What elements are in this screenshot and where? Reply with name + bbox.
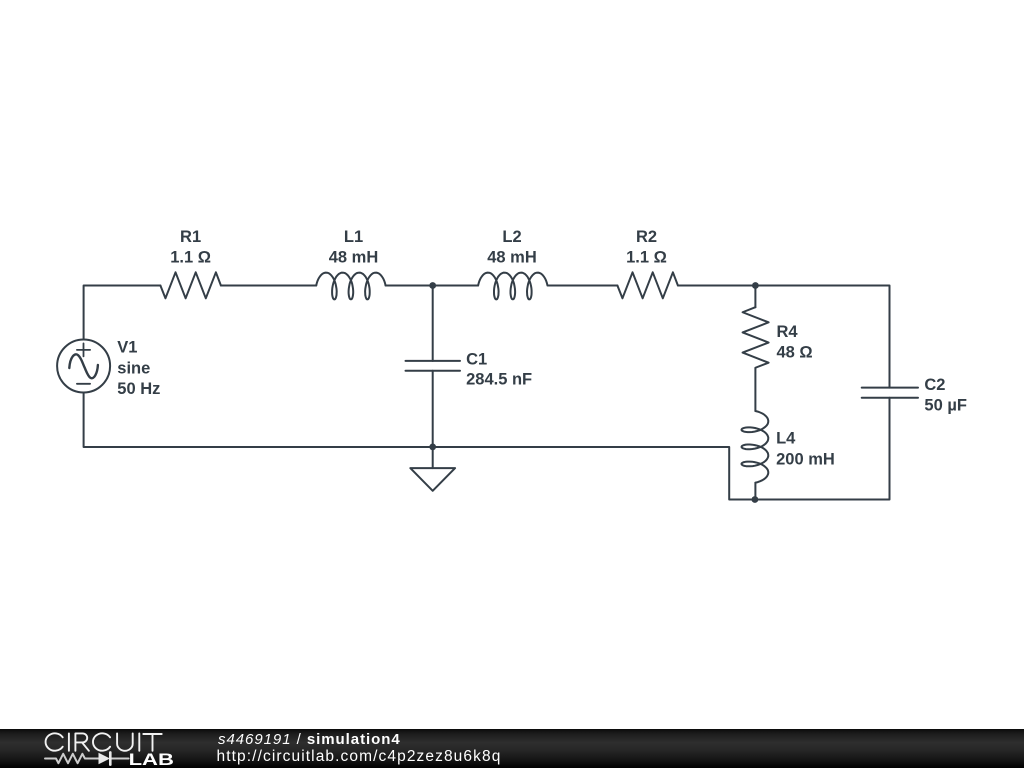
logo resistor symbol [45,754,99,763]
logo letter R [75,733,89,750]
wire C1 top lead [432,286,434,361]
svg-text:R1: R1 [180,228,201,246]
footer line 2 [217,748,502,766]
resistor R2 [617,272,678,298]
wire bottom rail [84,393,890,500]
ground [410,468,455,491]
logo letter C [46,733,63,750]
wire R2 to node B and C2 top [678,286,890,388]
wire L4 bottom lead [754,483,756,500]
capacitor C2 [862,388,918,398]
resistor R4 [743,307,769,368]
V1 plus sign [77,343,90,356]
inductor L2 [478,273,547,300]
wire L2 to R2 [548,285,617,287]
node D junction dot [752,496,759,503]
svg-text:V1: V1 [117,338,137,356]
wire R4 to L4 [754,368,756,411]
svg-text:48 Ω: 48 Ω [777,344,813,362]
logo letter C [93,733,110,750]
wire C1 bottom lead to ground [432,371,434,468]
svg-text:L4: L4 [776,430,796,448]
logo letter I [138,733,140,750]
svg-text:50 µF: 50 µF [924,396,967,414]
voltage source V1 [57,340,110,393]
svg-text:R2: R2 [636,228,657,246]
inductor L1 [316,273,385,300]
svg-text:48 mH: 48 mH [487,249,537,267]
inductor L4 [742,411,769,483]
svg-text:R4: R4 [777,323,799,341]
wire L1 to node A [386,285,479,287]
logo diode triangle [99,753,111,765]
svg-text:L2: L2 [502,228,521,246]
svg-text:L1: L1 [344,228,363,246]
svg-text:C1: C1 [466,350,487,368]
svg-text:1.1 Ω: 1.1 Ω [170,249,211,267]
wire R1 to L1 [221,285,316,287]
capacitor C1 [406,361,461,371]
svg-text:284.5 nF: 284.5 nF [466,371,532,389]
node A junction dot [429,282,436,289]
logo diode wire [110,758,128,760]
svg-text:48 mH: 48 mH [329,249,379,267]
svg-text:50 Hz: 50 Hz [117,380,160,398]
V1 minus sign [77,383,90,385]
CircuitLab logo [46,733,162,751]
logo letter I [68,733,70,750]
resistor R1 [160,272,221,298]
logo diode cathode bar [109,752,112,764]
svg-text:sine: sine [117,359,150,377]
svg-text:C2: C2 [924,376,945,394]
logo letter U [117,733,133,750]
footer bar [0,729,1024,768]
svg-text:1.1 Ω: 1.1 Ω [626,249,667,267]
V1 sine wave [69,354,98,378]
svg-text:200 mH: 200 mH [776,450,835,468]
footer line 1 [218,731,401,748]
logo letter T [143,734,161,751]
wire R4 top lead [754,286,756,308]
wire top rail [84,286,161,340]
node C junction dot [429,444,436,451]
node B junction dot [752,282,759,289]
svg-text:LAB: LAB [129,751,174,768]
